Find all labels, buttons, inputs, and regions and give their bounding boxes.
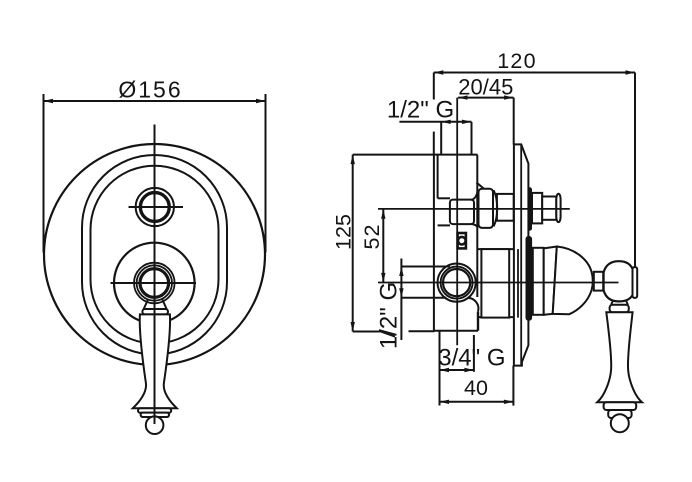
svg-text:1/2" G: 1/2" G <box>376 282 403 349</box>
svg-text:1/2" G: 1/2" G <box>387 97 454 124</box>
svg-text:Ø156: Ø156 <box>118 77 182 103</box>
svg-text:125: 125 <box>332 214 356 250</box>
svg-text:20/45: 20/45 <box>458 75 513 100</box>
svg-text:40: 40 <box>464 376 488 400</box>
svg-text:3/4" G: 3/4" G <box>438 344 505 371</box>
svg-text:120: 120 <box>497 49 536 73</box>
svg-text:52: 52 <box>360 224 384 250</box>
